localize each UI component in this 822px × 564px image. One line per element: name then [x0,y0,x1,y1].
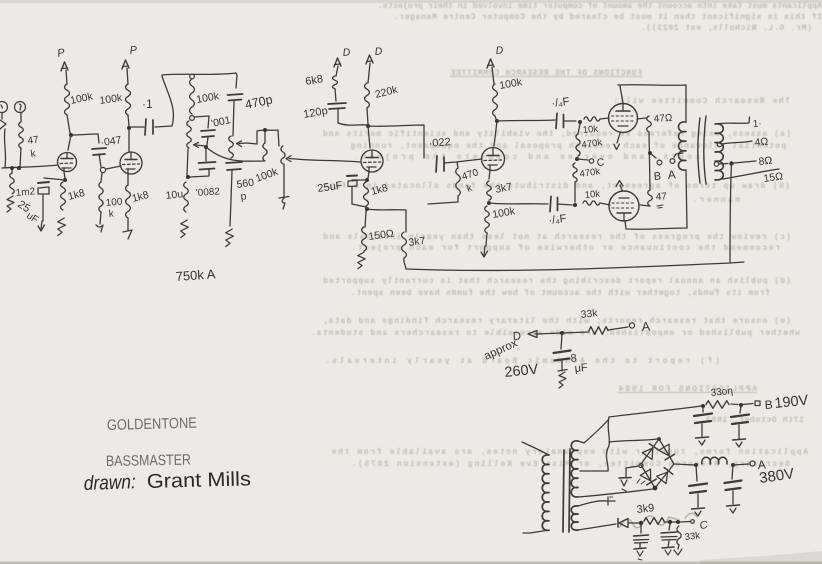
label 560p [236,177,255,203]
wire [99,154,101,167]
junction [263,128,267,132]
label 1M2 [15,186,36,199]
ground [727,505,740,513]
ground [181,220,189,238]
wire sec bot [578,489,653,497]
capacitor C4 [725,465,742,504]
wire CT [580,470,608,472]
wiper arrow3 [286,156,296,162]
ground [58,218,66,236]
wire [367,209,406,232]
capacitor .1uF bot [550,197,558,212]
junction [365,178,369,182]
tube V1 [58,153,77,172]
wire [106,166,121,169]
bridge arm TL [641,439,659,464]
junction [63,178,67,182]
capacitor 120p [328,103,346,109]
node [100,167,105,172]
label 47R [655,191,667,208]
junction [731,463,735,467]
label 100k vol [254,165,280,184]
label 0082 [195,186,220,199]
resistor 1M2 [10,170,15,194]
capacitor C1 [694,407,712,437]
wire [207,137,208,145]
wire [194,116,209,128]
junction [578,120,582,124]
ground [481,246,488,257]
input jack J1 [0,102,8,113]
label 220k [374,84,400,101]
label 6k8 [304,73,324,88]
wire [608,327,628,330]
wire [230,171,232,226]
wire plate-cap [71,134,98,135]
diode D3 [637,469,656,485]
capacitor 560p [226,162,242,170]
diode D5 [618,519,628,528]
junction [204,145,208,149]
resistor 150R [362,227,367,251]
resistor 1k8 V3 [364,182,369,206]
wire vol top [247,130,279,146]
capacitor C3 [689,465,707,507]
junction [657,437,661,441]
resistor 10u [184,182,189,212]
wire [131,126,144,128]
label 100k [491,205,516,221]
resistor 10k bot [583,201,600,205]
wire [494,121,497,146]
bridge arm TR [659,439,674,464]
label approx [482,337,519,362]
wire [233,101,234,136]
wire tone rail [162,73,236,75]
label 33k [684,530,701,543]
ground [38,221,45,231]
PT primary lead bot [523,530,549,533]
wire [733,464,749,465]
label .001 [210,114,232,130]
wire [98,134,99,143]
resistor 6k8 [333,76,338,89]
ground [558,370,567,389]
supply arrow D1 [334,46,351,67]
label 750kA [175,266,216,284]
resistor 100k tone [190,79,195,114]
label 150R [368,228,395,243]
PT core [563,449,570,532]
wire [127,68,128,84]
pot half B [281,146,285,164]
label 470p [244,92,274,111]
diode D4 [657,468,673,484]
ground [674,545,682,555]
label 470k [461,167,481,195]
resistor R1 100k [65,84,70,115]
node left corner [639,464,643,468]
wire [128,130,130,152]
ground [733,439,746,447]
capacitor .022 [436,156,444,172]
junction [701,404,705,408]
wire [187,149,188,175]
wire [626,466,639,477]
resistor 470k a [576,124,580,156]
junction [739,403,743,407]
label 47k [27,134,40,160]
label .1uF top [551,96,571,110]
wire [495,116,496,119]
tube V4 [482,148,505,171]
choke [702,457,727,464]
wire [562,332,589,333]
wire [4,129,5,167]
wire [564,120,577,122]
wire sec top [578,420,608,443]
resistor 3k9 [644,518,664,525]
wiper arrow2 [237,141,248,147]
wire [155,76,173,127]
resistor 100k V4k [485,206,490,233]
label 1k8 [67,187,87,203]
wire [574,182,576,202]
wire [42,195,44,221]
wire to V3 grid [296,159,360,162]
node plate V1 [69,133,73,137]
junction [648,151,652,155]
label 100k [498,76,523,92]
wire [535,333,562,334]
junction [653,486,658,491]
junction [366,124,370,128]
label 190V [774,392,810,411]
capacitor 8uF [554,351,571,361]
pot half A [263,131,267,161]
title GOLDENTONE [107,415,197,434]
resistor 3k7 V4 [487,181,492,200]
tap 8 [714,155,773,168]
OT secondary [715,124,723,180]
resistor 1k8 [61,182,66,210]
resistor 100k grid [99,173,103,212]
wire [492,67,494,84]
ground [696,437,709,445]
wire [444,159,482,163]
wire [336,66,338,76]
ground [358,252,365,269]
supply arrow D2 [366,45,383,64]
capacitor .047 [92,148,106,155]
bridge arm BR [655,464,674,488]
paper noise [0,0,1,1]
resistor 33k bias [677,526,681,545]
junction [495,119,499,123]
wire [731,404,753,405]
node [190,116,195,121]
title BASSMASTER [106,452,191,470]
wire screen V5 [637,118,646,119]
wire [128,115,129,126]
wire [127,174,129,185]
junction [190,74,195,79]
capacitor C5 [634,525,649,548]
label 380V [758,465,795,487]
wire [190,170,209,177]
resistor R2 100k [126,84,131,115]
bias lead top [578,495,615,506]
wire plate V6 [625,171,687,229]
wire [561,334,562,349]
wire NFB drop [730,164,732,264]
wire [67,115,70,133]
PT primary [542,455,549,531]
wire [558,204,573,205]
resistor 100k V4 [493,84,498,116]
ground [662,547,674,555]
wiper arrow [194,143,206,148]
diode D1 [642,444,658,460]
label 330R [710,386,733,399]
pot 250k treble [187,121,192,148]
terminal D [512,330,537,343]
OT core [698,116,706,184]
wire [1,113,3,119]
wire [20,148,21,167]
ground [634,548,646,560]
wire bottom coupling [489,203,548,204]
label 120p [302,105,328,121]
wire [283,164,285,198]
tap 4 [717,136,769,149]
junction [573,203,577,207]
wire bridge top feed [609,439,657,442]
label 100k [99,92,124,107]
wire [561,361,563,371]
label 1k8 [370,182,390,198]
ground [279,197,289,210]
junction [560,331,564,335]
label 25uF [15,198,40,225]
label .1uF bot [548,213,568,227]
wire top coupling [497,120,555,121]
junction [575,157,579,161]
node line [206,147,264,161]
supply arrow D3 [487,44,504,68]
wire [664,521,677,523]
junction [676,520,680,524]
capacitor 25uF [38,182,49,194]
capacitor .1 [145,119,153,135]
B rail [609,406,701,417]
label 3k9 [636,502,655,516]
capacitor 25uF V3 [347,176,367,187]
PT secondary HT [571,441,578,497]
wire [600,118,609,119]
junction [668,520,672,524]
capacitor .1uF top [556,114,564,129]
resistor 47R top [647,116,652,132]
wire [335,89,336,101]
input jack J2 [15,102,26,113]
capacitor .001 [201,130,215,137]
wire [368,172,369,178]
pot bass [229,136,234,158]
resistor 47k [19,122,24,148]
ground [7,196,14,212]
ground [619,478,631,492]
ground [226,229,234,247]
label 10k [584,189,600,201]
resistor 33k [589,327,608,335]
wire [600,203,610,205]
capacitor C6 [661,524,677,547]
wire [428,196,458,204]
switch contact [0,120,6,129]
wire [365,207,366,227]
label C [699,519,708,532]
resistor 470k [456,162,461,196]
PT primary lead top [522,442,549,455]
node B [650,153,662,183]
resistor 470k b [573,163,577,182]
credit drawn [83,468,251,495]
wire [352,187,366,207]
resistor 3k7 [402,232,407,258]
tube V3 [361,150,383,172]
wire [368,126,370,148]
label .1 [142,97,153,111]
wire plate to 022 [368,125,424,158]
bias lead bot [578,524,616,530]
junction [186,175,190,179]
signature (faint) [620,513,697,528]
wire [44,178,65,180]
wire [68,135,71,150]
ground cathode V5 [614,133,620,150]
tap 1 [715,117,762,130]
label 1k8 [131,189,151,205]
label 10u [165,188,184,202]
junction [487,201,491,205]
bridge arm BL [641,465,655,488]
ground [692,508,705,516]
label 3k7 [494,181,513,196]
label 260V [504,361,540,380]
node plate V2 [127,126,131,130]
wire plate V5 [620,86,623,103]
supply arrow P1 [56,47,68,71]
label 3k7 [408,235,427,249]
wire NFB [404,258,744,270]
wire [628,522,639,524]
label 33k [580,307,599,321]
terminal A [750,457,766,472]
label 100k [195,90,220,106]
junction [10,166,21,170]
label 100k [69,90,94,107]
wire grid bus V1 [2,165,58,168]
wire [66,70,67,84]
capacitor 470p [228,94,243,101]
wire [489,170,490,179]
ground [123,218,132,239]
ground [96,212,103,232]
label 100k [105,197,123,220]
wire [367,108,368,124]
tap 15 [716,169,784,185]
resistor 47R bot [648,190,653,206]
OT primary [679,122,687,170]
wire [20,113,22,122]
label 8uF [570,352,589,375]
junction [365,207,369,211]
label 10k [582,124,598,136]
wire [680,520,694,524]
label 25uF [317,180,344,195]
terminal A2 [629,319,651,334]
terminal B [755,397,773,412]
wire [640,205,650,206]
junction [694,463,698,467]
label .047 [100,134,123,149]
wire [338,109,367,125]
tube V2 [120,152,142,174]
node A [667,153,683,182]
PT bias winding [571,506,578,530]
resistor 10k top [584,117,600,121]
capacitor C2 [731,406,749,439]
wire 470p feed [236,73,237,88]
supply arrow P2 [122,44,138,69]
ground cathode V6 [616,181,623,191]
resistor 330R [706,401,729,409]
junction [639,521,643,525]
resistor 220k [365,83,370,108]
tube V6 [609,191,639,221]
label .022 [428,136,451,150]
tube V5 [609,104,638,133]
wire [64,172,65,178]
wire [368,63,370,83]
A rail [674,464,695,465]
wire top rail [618,85,686,122]
node C [577,156,605,169]
label 470k [579,166,601,180]
diode D2 [659,444,675,460]
wire sec S [606,417,609,471]
wire screen bus [649,132,650,190]
capacitor 0082 [199,148,216,170]
label 470k [581,137,603,151]
page edge shading [700,551,822,564]
label 47R [653,113,673,125]
wire [486,233,487,246]
resistor 1k8 V2 [126,185,131,218]
